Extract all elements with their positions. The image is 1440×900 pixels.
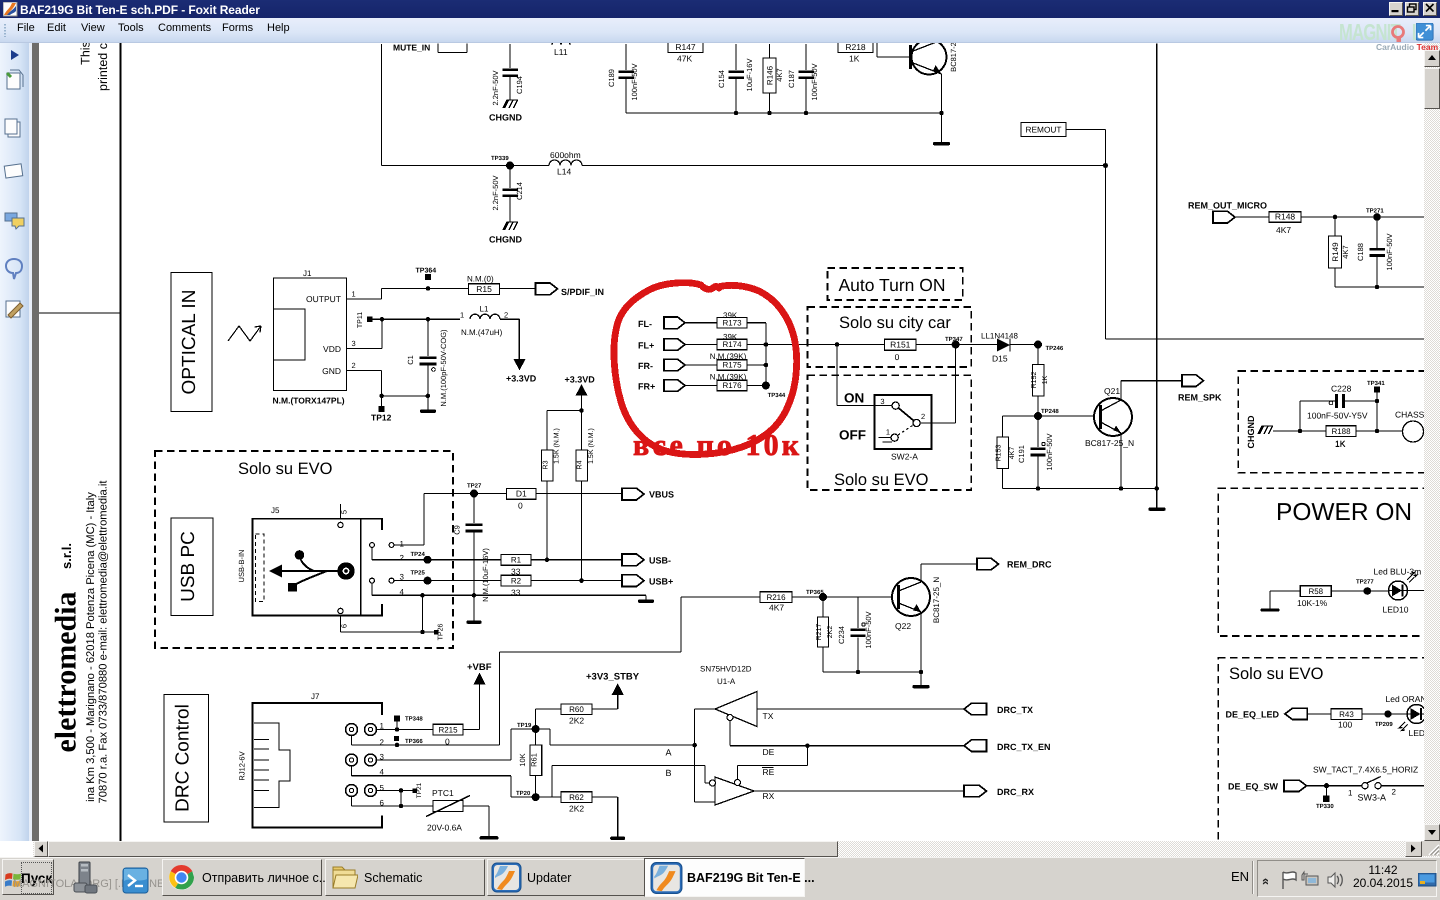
svg-text:This: This bbox=[78, 43, 92, 65]
svg-text:DE_EQ_SW: DE_EQ_SW bbox=[1228, 782, 1279, 792]
svg-text:R60: R60 bbox=[569, 705, 584, 714]
svg-text:N.M.(0): N.M.(0) bbox=[467, 275, 494, 284]
svg-text:1K: 1K bbox=[1335, 439, 1346, 449]
svg-text:C189: C189 bbox=[607, 69, 616, 87]
svg-text:+3.3VD: +3.3VD bbox=[564, 375, 595, 385]
svg-text:R215: R215 bbox=[438, 725, 458, 734]
svg-text:C228: C228 bbox=[1331, 384, 1352, 394]
svg-text:1: 1 bbox=[885, 428, 889, 437]
svg-text:R43: R43 bbox=[1339, 710, 1354, 719]
svg-text:TP271: TP271 bbox=[1366, 208, 1384, 215]
svg-text:TP246: TP246 bbox=[1045, 345, 1063, 352]
svg-text:600ohm: 600ohm bbox=[550, 150, 581, 160]
svg-text:R147: R147 bbox=[675, 43, 696, 52]
svg-text:4K7: 4K7 bbox=[769, 603, 784, 613]
svg-text:47K: 47K bbox=[677, 54, 692, 64]
svg-text:R218: R218 bbox=[845, 43, 866, 52]
svg-text:TP24: TP24 bbox=[410, 551, 425, 558]
svg-text:MUTE_IN: MUTE_IN bbox=[393, 43, 430, 53]
svg-text:C234: C234 bbox=[837, 626, 846, 644]
svg-text:N.M.(TORX147PL): N.M.(TORX147PL) bbox=[272, 396, 344, 406]
svg-text:TP12: TP12 bbox=[371, 413, 392, 423]
svg-text:R153: R153 bbox=[995, 445, 1002, 462]
svg-text:N.M.(10uF-16V): N.M.(10uF-16V) bbox=[481, 548, 490, 602]
svg-text:TP339: TP339 bbox=[491, 155, 509, 162]
svg-text:4: 4 bbox=[379, 768, 384, 777]
svg-text:10uF-16V: 10uF-16V bbox=[745, 59, 754, 92]
svg-text:B: B bbox=[665, 768, 671, 778]
svg-text:0: 0 bbox=[894, 352, 899, 362]
svg-text:10K: 10K bbox=[518, 753, 527, 766]
svg-text:R173: R173 bbox=[722, 319, 742, 328]
svg-text:POWER ON: POWER ON bbox=[1276, 499, 1412, 526]
svg-text:R148: R148 bbox=[1274, 212, 1295, 222]
svg-text:100nF-50V-Y5V: 100nF-50V-Y5V bbox=[1307, 411, 1368, 421]
svg-text:+VBF: +VBF bbox=[467, 662, 492, 673]
svg-text:TP27: TP27 bbox=[467, 483, 482, 490]
svg-text:OPTICAL IN: OPTICAL IN bbox=[179, 290, 200, 395]
svg-text:LED: LED bbox=[1408, 728, 1424, 738]
svg-text:TP347: TP347 bbox=[945, 336, 963, 343]
svg-text:SW2-A: SW2-A bbox=[891, 452, 918, 462]
svg-text:33: 33 bbox=[511, 588, 521, 598]
svg-text:R216: R216 bbox=[766, 593, 786, 602]
svg-text:N.M.(39K): N.M.(39K) bbox=[709, 373, 746, 382]
svg-text:TP348: TP348 bbox=[405, 716, 423, 723]
svg-text:TP341: TP341 bbox=[1367, 380, 1385, 387]
svg-text:TP330: TP330 bbox=[1316, 803, 1334, 810]
svg-text:1.5K (N.M.): 1.5K (N.M.) bbox=[587, 428, 595, 464]
svg-text:Q21: Q21 bbox=[1104, 386, 1120, 396]
svg-text:SN75HVD12D: SN75HVD12D bbox=[700, 665, 752, 674]
svg-text:100nF-50V: 100nF-50V bbox=[1385, 233, 1394, 270]
svg-text:Solo su city car: Solo su city car bbox=[839, 314, 951, 332]
svg-text:C188: C188 bbox=[1356, 243, 1365, 261]
svg-text:CHGND: CHGND bbox=[489, 113, 522, 123]
svg-text:TP25: TP25 bbox=[410, 570, 425, 577]
svg-text:R58: R58 bbox=[1308, 587, 1323, 596]
svg-text:0: 0 bbox=[518, 501, 523, 511]
svg-text:Led ORAN: Led ORAN bbox=[1385, 694, 1424, 704]
svg-text:TX: TX bbox=[762, 711, 773, 721]
svg-text:39K: 39K bbox=[723, 311, 738, 320]
svg-text:100nF-50V: 100nF-50V bbox=[864, 611, 873, 648]
svg-text:1: 1 bbox=[399, 540, 404, 549]
svg-text:C1: C1 bbox=[406, 355, 415, 365]
svg-text:A: A bbox=[665, 748, 671, 758]
svg-text:FL-: FL- bbox=[638, 319, 652, 329]
svg-text:D15: D15 bbox=[992, 354, 1008, 364]
svg-text:BC817-25_N: BC817-25_N bbox=[932, 577, 941, 623]
svg-text:J5: J5 bbox=[271, 506, 280, 515]
svg-text:10K-1%: 10K-1% bbox=[1297, 598, 1328, 608]
svg-text:2: 2 bbox=[1391, 788, 1396, 797]
svg-text:Solo su EVO: Solo su EVO bbox=[238, 460, 333, 478]
svg-text:R61: R61 bbox=[529, 753, 538, 767]
svg-text:2K2: 2K2 bbox=[569, 716, 584, 726]
svg-text:1: 1 bbox=[460, 311, 464, 320]
svg-text:C154: C154 bbox=[717, 70, 726, 88]
svg-text:2K2: 2K2 bbox=[569, 804, 584, 814]
svg-text:VDD: VDD bbox=[323, 344, 341, 354]
svg-text:USB PC: USB PC bbox=[178, 531, 199, 602]
svg-text:TP26: TP26 bbox=[437, 624, 444, 641]
svg-text:BC817-25_N: BC817-25_N bbox=[1085, 438, 1134, 448]
svg-text:elettromedia: elettromedia bbox=[49, 591, 82, 752]
svg-text:C214: C214 bbox=[515, 182, 524, 200]
svg-text:SW_TACT_7.4X6.5_HORIZ: SW_TACT_7.4X6.5_HORIZ bbox=[1313, 765, 1418, 775]
svg-text:R176: R176 bbox=[722, 381, 742, 390]
svg-text:C194: C194 bbox=[515, 76, 524, 94]
svg-text:ina Km 3,500 - Marignano - 620: ina Km 3,500 - Marignano - 62018 Potenza… bbox=[85, 492, 97, 802]
svg-text:2.2nF-50V: 2.2nF-50V bbox=[491, 175, 500, 210]
svg-text:L14: L14 bbox=[557, 167, 571, 177]
svg-text:2.2nF-50V: 2.2nF-50V bbox=[491, 70, 500, 105]
svg-text:Q22: Q22 bbox=[895, 621, 911, 631]
svg-text:SW3-A: SW3-A bbox=[1357, 793, 1386, 803]
svg-text:OFF: OFF bbox=[839, 428, 866, 443]
svg-text:USB-B-IN: USB-B-IN bbox=[237, 550, 246, 583]
svg-text:N.M.(39K): N.M.(39K) bbox=[709, 352, 746, 361]
svg-text:100nF-50V: 100nF-50V bbox=[1045, 433, 1054, 470]
svg-text:R1: R1 bbox=[510, 556, 521, 565]
svg-text:+3.3VD: +3.3VD bbox=[506, 374, 537, 384]
svg-text:R188: R188 bbox=[1331, 427, 1351, 436]
svg-text:CHGND: CHGND bbox=[489, 235, 522, 245]
svg-text:100: 100 bbox=[1338, 720, 1352, 730]
svg-text:L11: L11 bbox=[554, 47, 568, 57]
svg-text:S/PDIF_IN: S/PDIF_IN bbox=[561, 287, 604, 297]
svg-text:USB-: USB- bbox=[649, 556, 671, 566]
svg-text:2: 2 bbox=[399, 554, 404, 563]
svg-text:2K2: 2K2 bbox=[827, 626, 834, 639]
svg-text:20V-0.6A: 20V-0.6A bbox=[427, 823, 462, 833]
svg-text:R175: R175 bbox=[722, 361, 742, 370]
svg-text:DRC_RX: DRC_RX bbox=[997, 787, 1034, 797]
svg-text:2: 2 bbox=[351, 361, 355, 370]
svg-text:1: 1 bbox=[1348, 789, 1353, 798]
svg-text:R62: R62 bbox=[569, 793, 584, 802]
svg-text:TP20: TP20 bbox=[516, 790, 531, 797]
svg-text:DE: DE bbox=[762, 747, 774, 757]
svg-text:1K: 1K bbox=[1042, 375, 1049, 384]
svg-text:REMOUT: REMOUT bbox=[1025, 125, 1061, 135]
svg-text:3: 3 bbox=[880, 397, 884, 406]
svg-text:39K: 39K bbox=[723, 333, 738, 342]
svg-text:J1: J1 bbox=[303, 269, 312, 278]
svg-text:C9: C9 bbox=[452, 525, 461, 535]
svg-text:R151: R151 bbox=[890, 340, 911, 350]
svg-text:100nF-50V: 100nF-50V bbox=[630, 63, 639, 100]
svg-text:2: 2 bbox=[504, 311, 508, 320]
svg-text:RJ12-6V: RJ12-6V bbox=[237, 751, 246, 780]
svg-text:C191: C191 bbox=[1017, 445, 1026, 463]
svg-text:R174: R174 bbox=[722, 340, 742, 349]
svg-text:s.r.l.: s.r.l. bbox=[59, 543, 74, 569]
svg-text:1K: 1K bbox=[849, 54, 860, 64]
svg-text:1.5K (N.M.): 1.5K (N.M.) bbox=[552, 428, 560, 464]
svg-text:PTC1: PTC1 bbox=[432, 788, 454, 798]
svg-text:VBUS: VBUS bbox=[649, 490, 674, 500]
svg-text:70870 r.a. Fax 0733/870880 e-m: 70870 r.a. Fax 0733/870880 e-mail: elett… bbox=[97, 480, 109, 804]
svg-text:DE_EQ_LED: DE_EQ_LED bbox=[1225, 710, 1279, 720]
svg-text:DRC_TX_EN: DRC_TX_EN bbox=[997, 742, 1051, 752]
svg-text:R152: R152 bbox=[1031, 372, 1038, 389]
svg-text:5: 5 bbox=[339, 510, 348, 514]
svg-text:4K7: 4K7 bbox=[1009, 447, 1016, 460]
svg-text:CHASSI: CHASSI bbox=[1395, 410, 1424, 420]
svg-text:FL+: FL+ bbox=[638, 341, 654, 351]
svg-text:R2: R2 bbox=[510, 576, 521, 585]
svg-text:R15: R15 bbox=[476, 284, 492, 294]
svg-text:N.M.(47uH): N.M.(47uH) bbox=[461, 328, 503, 337]
svg-text:TP344: TP344 bbox=[767, 392, 785, 399]
svg-text:4K7: 4K7 bbox=[1276, 225, 1291, 235]
svg-text:RE: RE bbox=[762, 767, 774, 777]
svg-text:2: 2 bbox=[379, 738, 384, 747]
svg-text:C187: C187 bbox=[787, 70, 796, 88]
svg-text:FR-: FR- bbox=[638, 361, 653, 371]
svg-text:TP366: TP366 bbox=[405, 738, 423, 745]
svg-text:R4: R4 bbox=[576, 460, 583, 469]
svg-text:BC817-2: BC817-2 bbox=[949, 43, 958, 72]
svg-text:5: 5 bbox=[379, 784, 384, 793]
svg-text:TP277: TP277 bbox=[1356, 579, 1374, 586]
svg-text:printed c: printed c bbox=[96, 43, 110, 91]
svg-text:2: 2 bbox=[921, 412, 925, 421]
svg-text:4K7: 4K7 bbox=[1341, 245, 1350, 258]
svg-text:ON: ON bbox=[844, 391, 864, 406]
svg-text:Led BLU-3m: Led BLU-3m bbox=[1373, 567, 1421, 577]
svg-text:+3V3_STBY: +3V3_STBY bbox=[586, 672, 640, 683]
svg-text:1: 1 bbox=[351, 290, 355, 299]
svg-text:L1: L1 bbox=[479, 305, 488, 314]
svg-text:OUTPUT: OUTPUT bbox=[306, 294, 341, 304]
svg-text:LED10: LED10 bbox=[1382, 605, 1408, 615]
svg-text:DRC_TX: DRC_TX bbox=[997, 705, 1033, 715]
svg-text:Solo su EVO: Solo su EVO bbox=[834, 471, 929, 489]
svg-text:J7: J7 bbox=[311, 692, 320, 701]
svg-text:RX: RX bbox=[762, 791, 774, 801]
svg-text:LL1N4148: LL1N4148 bbox=[981, 332, 1018, 341]
svg-text:REM_OUT_MICRO: REM_OUT_MICRO bbox=[1188, 201, 1267, 211]
svg-text:R146: R146 bbox=[765, 65, 774, 85]
svg-text:R3: R3 bbox=[542, 460, 549, 469]
svg-text:100nF-50V: 100nF-50V bbox=[810, 63, 819, 100]
svg-text:TP21: TP21 bbox=[416, 782, 423, 798]
svg-text:TP248: TP248 bbox=[1041, 408, 1059, 415]
svg-text:все по 10к: все по 10к bbox=[633, 429, 800, 462]
svg-text:3: 3 bbox=[351, 339, 355, 348]
svg-text:USB+: USB+ bbox=[649, 577, 673, 587]
svg-text:U1-A: U1-A bbox=[717, 677, 736, 686]
svg-text:REM_SPK: REM_SPK bbox=[1178, 393, 1222, 403]
svg-text:R149: R149 bbox=[1330, 242, 1339, 262]
svg-text:GND: GND bbox=[322, 366, 341, 376]
svg-text:Solo su EVO: Solo su EVO bbox=[1229, 665, 1324, 683]
svg-text:TP209: TP209 bbox=[1375, 721, 1393, 728]
svg-text:4K7: 4K7 bbox=[775, 68, 784, 81]
svg-text:TP11: TP11 bbox=[357, 312, 364, 328]
svg-text:DRC Control: DRC Control bbox=[172, 704, 193, 812]
svg-text:D1: D1 bbox=[515, 489, 526, 499]
svg-text:FR+: FR+ bbox=[638, 382, 655, 392]
svg-text:Auto Turn ON: Auto Turn ON bbox=[838, 275, 945, 295]
svg-text:TP365: TP365 bbox=[806, 589, 824, 596]
svg-text:REM_DRC: REM_DRC bbox=[1007, 560, 1052, 570]
svg-text:CHGND: CHGND bbox=[1246, 415, 1256, 448]
svg-text:N.M.(100pF-50V-COG): N.M.(100pF-50V-COG) bbox=[439, 329, 448, 407]
svg-text:TP19: TP19 bbox=[517, 722, 532, 729]
svg-text:TP364: TP364 bbox=[415, 268, 436, 275]
svg-text:R217: R217 bbox=[816, 624, 823, 641]
